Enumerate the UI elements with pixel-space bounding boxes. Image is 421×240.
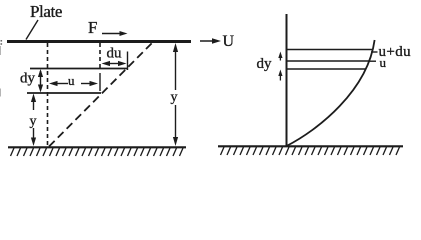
velocity profile curve (right diagram): [287, 40, 375, 146]
dimension du (velocity increment): [102, 61, 127, 66]
upper layer line (y+dy level): [30, 68, 128, 70]
dimension arrow dy (double headed, between layer lines): [38, 69, 43, 93]
dimension y left (height of lower layer): [31, 94, 36, 147]
ground hatching right: [221, 147, 400, 155]
ground line left (fixed surface): [8, 146, 186, 148]
dashed vertical line at x=100 (projection of u to plate): [99, 43, 101, 69]
plate (moving plate, thick top line): [7, 40, 191, 43]
dimension y right (height to plate): [173, 43, 178, 146]
tick at end of du dimension: [127, 52, 129, 71]
label Plate: [30, 2, 62, 21]
label du: [107, 46, 123, 62]
label U: [223, 33, 235, 50]
label F: [88, 18, 97, 37]
label y (right of left diagram): [171, 90, 178, 105]
svg-text:u: u: [68, 73, 75, 88]
tick at end of u dimension: [99, 73, 101, 91]
svg-text:F: F: [88, 18, 97, 37]
svg-text:du: du: [107, 46, 123, 62]
label dy (left diagram): [20, 71, 36, 87]
svg-text:dy: dy: [257, 56, 273, 72]
label y (left small): [30, 114, 37, 129]
ground line right (fixed surface): [218, 145, 403, 147]
lower layer line (y level): [27, 92, 101, 94]
leader line from Plate label to plate: [26, 20, 38, 40]
layer line middle (right diagram): [287, 60, 370, 62]
svg-text:y: y: [171, 90, 178, 105]
dimension u (velocity at lower layer): [49, 81, 98, 86]
axis vertical (right diagram): [286, 14, 288, 147]
layer line u level (right diagram): [287, 68, 366, 70]
svg-text:dy: dy: [20, 71, 36, 87]
tick for u+du label: [371, 51, 378, 53]
svg-text:u: u: [380, 55, 387, 70]
dy dimension arrows (right diagram): [278, 52, 282, 81]
ground hatching left: [11, 148, 184, 156]
dashed vertical line at x=47.5 (reference line through profile): [47, 43, 49, 146]
label u+du: [379, 44, 412, 60]
arrow F (force direction): [102, 31, 128, 36]
svg-text:U: U: [223, 33, 235, 50]
arrow U (plate velocity): [200, 38, 221, 44]
svg-text:Plate: Plate: [30, 2, 62, 21]
label u (right diagram): [380, 55, 387, 70]
label u (left diagram): [68, 73, 75, 88]
layer line u+du level (right diagram): [287, 49, 374, 51]
scan speck near left edge: [0, 40, 2, 97]
label dy (right diagram): [257, 56, 273, 72]
tick for u label: [370, 60, 377, 62]
dashed diagonal (linear velocity profile): [49, 42, 153, 147]
svg-text:y: y: [30, 114, 37, 129]
